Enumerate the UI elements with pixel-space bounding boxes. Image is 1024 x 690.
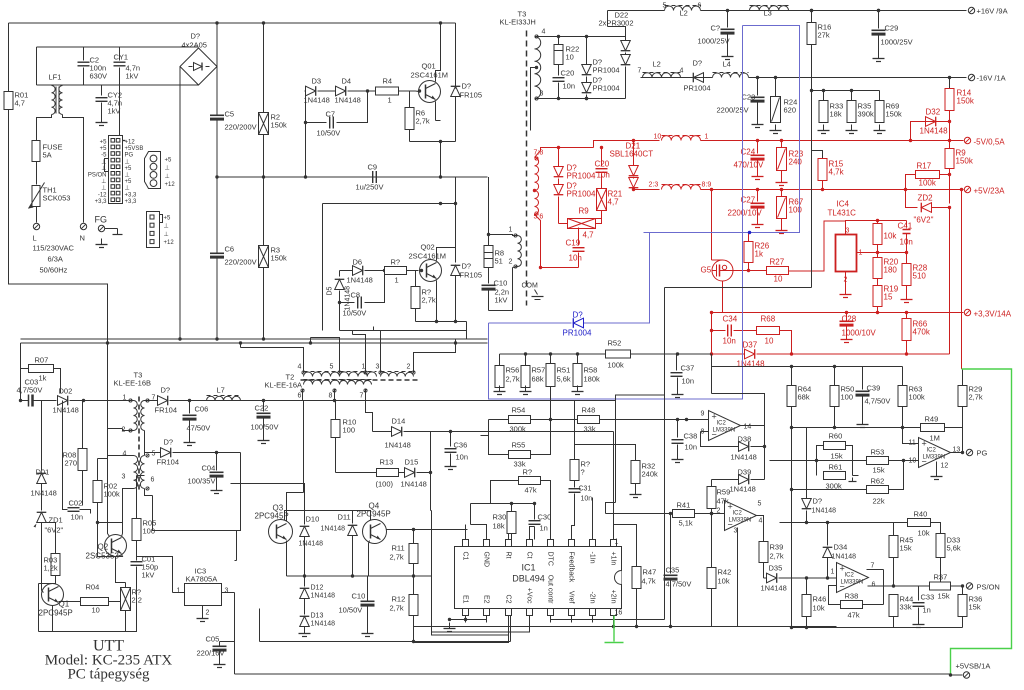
svg-text:18k: 18k bbox=[830, 110, 842, 119]
svg-text:10k: 10k bbox=[918, 529, 930, 538]
svg-text:D12: D12 bbox=[311, 585, 324, 592]
diode D34 bbox=[827, 523, 829, 546]
svg-text:4,7/50V: 4,7/50V bbox=[865, 397, 891, 406]
resistor R24 bbox=[775, 78, 777, 97]
wire red top rail to L2 bbox=[594, 141, 660, 148]
wire pson bottom bus bbox=[792, 627, 963, 629]
svg-text:2,7k: 2,7k bbox=[770, 552, 784, 561]
svg-text:R51: R51 bbox=[557, 366, 571, 375]
svg-text:Q02: Q02 bbox=[421, 243, 435, 252]
resistor R4 bbox=[376, 87, 399, 95]
wire pin10 row bbox=[770, 460, 867, 462]
svg-text:⊥: ⊥ bbox=[125, 172, 130, 179]
svg-text:LM339N: LM339N bbox=[841, 580, 864, 586]
svg-text:⊥: ⊥ bbox=[125, 158, 130, 165]
resistor R55 bbox=[489, 420, 509, 455]
resistor R50 bbox=[834, 367, 836, 386]
svg-text:-12: -12 bbox=[98, 192, 107, 198]
svg-text:10/50V: 10/50V bbox=[339, 606, 363, 615]
diode D? PR1004 a bbox=[582, 65, 592, 75]
svg-text:IC2: IC2 bbox=[927, 448, 937, 454]
svg-text:D?: D? bbox=[161, 386, 171, 395]
capacitor C36 bbox=[450, 432, 452, 447]
resistor R14 bbox=[949, 78, 951, 89]
svg-text:R30: R30 bbox=[493, 513, 507, 522]
wire Q01 collector bbox=[436, 23, 441, 82]
wire T3B sec mid bbox=[144, 431, 146, 456]
svg-text:2: 2 bbox=[407, 364, 411, 371]
resistor R38 bbox=[829, 586, 841, 605]
svg-text:8: 8 bbox=[329, 393, 333, 400]
svg-text:2SC4161M: 2SC4161M bbox=[409, 252, 447, 261]
wire G5 source bbox=[712, 281, 723, 313]
svg-text:C19: C19 bbox=[566, 239, 581, 248]
svg-text:R62: R62 bbox=[871, 477, 885, 486]
svg-text:10: 10 bbox=[774, 275, 783, 284]
resistor R07 bbox=[21, 368, 29, 370]
diode D? FR105 top bbox=[455, 84, 457, 89]
resistor R54 bbox=[489, 419, 509, 421]
resistor R35 bbox=[851, 91, 853, 101]
wire base line bbox=[293, 510, 367, 512]
svg-text:240k: 240k bbox=[642, 470, 659, 479]
svg-text:D01: D01 bbox=[36, 468, 50, 477]
svg-text:47/50V: 47/50V bbox=[187, 424, 211, 433]
svg-text:620: 620 bbox=[784, 106, 797, 115]
junction blue bbox=[748, 231, 751, 234]
wire primary tap bbox=[535, 66, 538, 69]
svg-text:C34: C34 bbox=[723, 315, 738, 324]
resistor R41 bbox=[673, 510, 695, 518]
svg-text:+12: +12 bbox=[164, 240, 175, 246]
wire red sec top bbox=[535, 148, 594, 158]
svg-text:R?: R? bbox=[523, 468, 533, 477]
svg-text:12: 12 bbox=[941, 463, 949, 470]
svg-text:SBL1640CT: SBL1640CT bbox=[610, 150, 654, 159]
wire +1in pin bbox=[613, 432, 615, 540]
svg-text:R37: R37 bbox=[934, 573, 948, 582]
capacitor C29 bbox=[877, 9, 880, 12]
diode D4 bbox=[336, 86, 346, 96]
diode D35 bbox=[764, 577, 767, 579]
resistor R57 bbox=[525, 354, 527, 366]
svg-text:C30: C30 bbox=[538, 513, 552, 522]
zener ZD1 bbox=[37, 512, 47, 522]
svg-text:7: 7 bbox=[638, 68, 642, 75]
diode D15 bbox=[405, 468, 415, 478]
svg-text:⊥: ⊥ bbox=[101, 158, 106, 165]
svg-text:-1In: -1In bbox=[589, 552, 596, 564]
wire +2in pin16 bbox=[613, 616, 615, 627]
resistor R42 bbox=[711, 514, 713, 568]
wire +3,3 rail bbox=[711, 312, 964, 314]
svg-text:115/230VAC: 115/230VAC bbox=[33, 244, 75, 253]
svg-text:+5VSB: +5VSB bbox=[125, 146, 144, 152]
svg-text:PR1004: PR1004 bbox=[593, 84, 620, 93]
svg-text:100k: 100k bbox=[104, 490, 121, 499]
svg-text:+5: +5 bbox=[125, 179, 133, 185]
svg-text:R07: R07 bbox=[35, 356, 49, 365]
resistor R61 bbox=[824, 472, 846, 480]
svg-text:5A: 5A bbox=[43, 151, 52, 160]
svg-text:C06: C06 bbox=[195, 405, 209, 414]
svg-text:LF1: LF1 bbox=[49, 73, 62, 82]
svg-text:IC2: IC2 bbox=[845, 573, 855, 579]
svg-text:L2: L2 bbox=[680, 9, 688, 18]
capacitor C20 snubber bbox=[553, 77, 565, 79]
wire Q4 base feed bbox=[231, 484, 305, 511]
wire box around Q02 bbox=[323, 177, 456, 204]
svg-text:470/10V: 470/10V bbox=[734, 161, 764, 170]
svg-text:R55: R55 bbox=[512, 441, 526, 450]
wire T2 pin3 up bbox=[374, 331, 381, 373]
svg-text:33k: 33k bbox=[514, 460, 526, 469]
svg-text:+Vcc: +Vcc bbox=[526, 588, 533, 604]
wire ic2pg in11 bbox=[903, 428, 919, 444]
svg-text:4,7: 4,7 bbox=[15, 99, 25, 108]
svg-text:10n: 10n bbox=[569, 254, 582, 263]
svg-text:10n: 10n bbox=[71, 513, 84, 522]
wire standby top bus bbox=[21, 342, 488, 344]
svg-text:180: 180 bbox=[884, 266, 898, 275]
connector molex 4pin bbox=[145, 152, 161, 189]
wire +5 sense bbox=[960, 188, 963, 191]
svg-text:R39: R39 bbox=[770, 543, 784, 552]
svg-text:100k: 100k bbox=[909, 393, 926, 402]
resistor R10 bbox=[331, 420, 340, 438]
capacitor C6 bbox=[216, 177, 218, 253]
resistor R23 bbox=[780, 139, 783, 142]
svg-text:Ct: Ct bbox=[526, 552, 533, 559]
mosfet G5 bbox=[712, 260, 733, 281]
diode D6 bbox=[353, 266, 363, 276]
svg-text:R12: R12 bbox=[392, 595, 406, 604]
svg-text:KL-EE-16B: KL-EE-16B bbox=[114, 379, 152, 388]
capacitor C37 bbox=[676, 354, 678, 371]
wire R33 bus bbox=[812, 90, 880, 92]
resistor R11 bbox=[413, 530, 415, 544]
svg-text:Feedback: Feedback bbox=[568, 552, 575, 583]
svg-text:-2In: -2In bbox=[589, 591, 596, 603]
svg-text:1: 1 bbox=[615, 539, 619, 546]
svg-text:Rt: Rt bbox=[505, 552, 512, 559]
svg-text:⊥: ⊥ bbox=[125, 185, 130, 192]
svg-text:3: 3 bbox=[376, 364, 380, 371]
svg-text:18k: 18k bbox=[493, 522, 505, 531]
wire top +310V rail bbox=[9, 22, 456, 24]
wire R11 tap bbox=[431, 511, 433, 577]
resistor R? 47k dtc bbox=[519, 477, 541, 485]
svg-text:1N4148: 1N4148 bbox=[53, 406, 79, 415]
capacitor C34 bbox=[712, 330, 726, 332]
svg-text:KL-EE-16A: KL-EE-16A bbox=[265, 381, 303, 390]
resistor R3 bbox=[263, 177, 265, 246]
svg-text:IC2: IC2 bbox=[733, 511, 743, 517]
svg-text:7: 7 bbox=[871, 563, 875, 570]
svg-text:1: 1 bbox=[831, 569, 835, 576]
wire D3 anode drop bbox=[305, 91, 307, 123]
resistor R51 bbox=[550, 354, 552, 364]
svg-text:+3,3: +3,3 bbox=[95, 199, 108, 205]
svg-text:PG: PG bbox=[125, 153, 134, 159]
svg-text:C10: C10 bbox=[494, 279, 508, 288]
svg-text:+5VSB/1A: +5VSB/1A bbox=[956, 662, 991, 671]
svg-text:R52: R52 bbox=[608, 339, 622, 348]
resistor R62 bbox=[792, 489, 867, 491]
svg-text:15k: 15k bbox=[873, 466, 885, 475]
svg-text:10n: 10n bbox=[682, 377, 695, 386]
resistor R? fb bbox=[574, 401, 576, 460]
resistor R05 bbox=[136, 476, 138, 519]
svg-text:1N4148: 1N4148 bbox=[737, 360, 766, 369]
svg-text:R9: R9 bbox=[579, 207, 590, 216]
svg-text:1k: 1k bbox=[39, 374, 47, 383]
svg-text:⊥: ⊥ bbox=[165, 165, 170, 172]
svg-text:+5: +5 bbox=[125, 166, 133, 172]
svg-text:2,7k: 2,7k bbox=[969, 393, 983, 402]
svg-text:R46: R46 bbox=[813, 595, 827, 604]
svg-text:Q2: Q2 bbox=[98, 543, 109, 552]
svg-text:150k: 150k bbox=[956, 157, 974, 166]
wire blue loop bbox=[656, 26, 800, 233]
wire Q01 emitter bbox=[435, 102, 437, 121]
svg-text:C5: C5 bbox=[225, 110, 235, 119]
svg-text:R27: R27 bbox=[770, 258, 785, 267]
svg-text:11: 11 bbox=[909, 440, 916, 447]
svg-text:1N4148: 1N4148 bbox=[31, 489, 57, 498]
wire outctl vref bbox=[551, 616, 665, 620]
svg-text:100k: 100k bbox=[608, 361, 625, 370]
wire Q2 collector bbox=[122, 534, 123, 537]
svg-text:E1: E1 bbox=[462, 595, 469, 604]
svg-text:270: 270 bbox=[65, 459, 78, 468]
svg-text:6: 6 bbox=[151, 477, 155, 484]
svg-text:2,7k: 2,7k bbox=[506, 375, 520, 384]
label PSON bbox=[966, 583, 972, 589]
wire pg top bus bbox=[712, 366, 903, 368]
svg-text:10: 10 bbox=[654, 134, 662, 141]
svg-text:⊥: ⊥ bbox=[101, 165, 106, 172]
svg-text:D?: D? bbox=[164, 438, 174, 447]
svg-text:R61: R61 bbox=[829, 463, 843, 472]
svg-text:SCK053: SCK053 bbox=[43, 194, 71, 203]
svg-text:C10: C10 bbox=[352, 592, 366, 601]
svg-text:D34: D34 bbox=[834, 543, 848, 552]
svg-text:1N4148: 1N4148 bbox=[299, 541, 324, 548]
svg-text:1N4148: 1N4148 bbox=[730, 485, 756, 494]
svg-text:+12: +12 bbox=[125, 140, 136, 146]
svg-text:6: 6 bbox=[872, 582, 876, 589]
svg-text:4x2A05: 4x2A05 bbox=[182, 41, 207, 50]
svg-text:C7: C7 bbox=[326, 110, 336, 119]
svg-text:"6V2": "6V2" bbox=[45, 526, 64, 535]
wire IC4 anode gnd bbox=[845, 272, 847, 289]
wire AC net A bbox=[36, 47, 38, 85]
wire snubber top bbox=[548, 36, 626, 38]
wire Q02 bottom bus bbox=[339, 303, 341, 331]
svg-text:C31: C31 bbox=[579, 486, 592, 493]
wire mid rail bbox=[217, 176, 488, 178]
resistor R36 bbox=[962, 586, 964, 595]
svg-text:+5: +5 bbox=[165, 158, 173, 164]
svg-text:10/50V: 10/50V bbox=[343, 309, 367, 318]
svg-text:+1In: +1In bbox=[610, 552, 617, 566]
resistor R? 2,2 bbox=[121, 588, 131, 611]
svg-text:C38: C38 bbox=[684, 432, 698, 441]
svg-text:5,6k: 5,6k bbox=[947, 544, 961, 553]
capacitor C35 bbox=[670, 514, 672, 574]
svg-text:+3,3V/14A: +3,3V/14A bbox=[974, 310, 1012, 319]
svg-text:510: 510 bbox=[913, 272, 927, 281]
svg-text:D3: D3 bbox=[312, 77, 322, 86]
svg-text:D10: D10 bbox=[306, 515, 320, 524]
wire c2 vcc pins bbox=[414, 616, 509, 643]
resistor R44 bbox=[889, 595, 898, 617]
wire Q2 emitter net bbox=[108, 429, 110, 537]
diode D01 bbox=[37, 473, 47, 483]
svg-text:PR1004: PR1004 bbox=[593, 66, 620, 75]
svg-text:+16V /9A: +16V /9A bbox=[977, 7, 1008, 16]
svg-text:C36: C36 bbox=[454, 441, 468, 450]
svg-text:D39: D39 bbox=[738, 468, 752, 477]
svg-text:150k: 150k bbox=[957, 97, 975, 106]
transistor Q01 bbox=[419, 81, 441, 103]
svg-text:2: 2 bbox=[509, 259, 513, 266]
svg-text:10k: 10k bbox=[813, 604, 825, 613]
svg-text:5: 5 bbox=[330, 364, 334, 371]
wire 5vsb riser bbox=[616, 395, 665, 401]
resistor R45 bbox=[893, 523, 895, 536]
wire aux out bbox=[237, 453, 241, 531]
wire T2 pin5 up bbox=[311, 338, 340, 373]
svg-text:D4: D4 bbox=[342, 77, 352, 86]
svg-text:⊥: ⊥ bbox=[101, 178, 106, 185]
svg-text:R4: R4 bbox=[383, 77, 393, 86]
svg-text:2SC4161M: 2SC4161M bbox=[411, 71, 449, 80]
svg-text:3: 3 bbox=[846, 228, 850, 235]
resistor R9 150k bbox=[949, 141, 951, 149]
svg-text:D5: D5 bbox=[327, 286, 334, 295]
svg-text:10n: 10n bbox=[685, 443, 698, 452]
svg-text:D6: D6 bbox=[353, 258, 363, 267]
capacitor C06 bbox=[189, 401, 191, 414]
svg-text:15k: 15k bbox=[938, 592, 950, 601]
svg-text:5: 5 bbox=[758, 501, 762, 508]
terminal FG bbox=[98, 225, 104, 231]
resistor R21 red bbox=[597, 189, 607, 211]
svg-text:D?: D? bbox=[573, 311, 584, 320]
resistor R40 bbox=[908, 519, 931, 527]
svg-text:4,7k: 4,7k bbox=[829, 168, 845, 177]
transistor Q2 bbox=[105, 535, 127, 557]
svg-text:D32: D32 bbox=[926, 108, 941, 117]
transistor Q1 bbox=[42, 584, 64, 606]
wire T2 pin6 down bbox=[302, 389, 304, 401]
svg-text:+5V/23A: +5V/23A bbox=[974, 187, 1006, 196]
diode D5 bbox=[335, 279, 345, 289]
capacitor C05 bbox=[219, 642, 221, 646]
resistor R16 bbox=[810, 9, 813, 12]
svg-text:KL-EI33JH: KL-EI33JH bbox=[500, 18, 536, 27]
wire to IC3 bbox=[236, 531, 238, 561]
svg-text:C8: C8 bbox=[351, 291, 361, 300]
svg-text:150k: 150k bbox=[886, 110, 903, 119]
svg-text:1: 1 bbox=[509, 227, 513, 234]
wire top rail right part bbox=[455, 23, 457, 89]
thermistor TH1 bbox=[32, 186, 40, 207]
svg-text:2,7k: 2,7k bbox=[416, 117, 430, 126]
svg-text:FR104: FR104 bbox=[157, 458, 180, 467]
wire dbl bottom pins bbox=[465, 616, 467, 620]
wire IC3 out bbox=[234, 593, 236, 642]
svg-text:R?: R? bbox=[391, 258, 401, 267]
svg-text:⊥: ⊥ bbox=[101, 185, 106, 192]
svg-text:L: L bbox=[33, 234, 37, 243]
wire upper links bbox=[240, 343, 242, 348]
svg-text:PR1004: PR1004 bbox=[684, 84, 711, 93]
diode D10 bbox=[300, 526, 310, 536]
svg-text:C35: C35 bbox=[666, 566, 680, 575]
wire mid rail to T3 bbox=[488, 177, 490, 235]
svg-text:KA7805A: KA7805A bbox=[186, 575, 218, 584]
resistor R? emitter Q02 bbox=[415, 271, 417, 287]
svg-text:⊥: ⊥ bbox=[165, 173, 170, 180]
svg-text:4,7/50V: 4,7/50V bbox=[17, 386, 43, 395]
wire blue vert mid bbox=[584, 233, 650, 324]
capacitor C20 red bbox=[601, 148, 603, 167]
svg-text:C20: C20 bbox=[595, 160, 610, 169]
svg-text:100: 100 bbox=[143, 527, 156, 536]
wire Q4 collector bbox=[387, 529, 468, 531]
capacitor C41 bbox=[906, 221, 908, 227]
wire q1 bottom bbox=[53, 606, 126, 632]
wire T3B pin2 bbox=[108, 428, 123, 430]
resistor R69 bbox=[879, 91, 881, 101]
wire Q02 collector bbox=[437, 248, 456, 261]
svg-text:4: 4 bbox=[298, 364, 302, 371]
svg-text:1N4148: 1N4148 bbox=[304, 96, 330, 105]
winding T2 top bbox=[304, 372, 340, 377]
wire pin1 row bbox=[805, 576, 808, 579]
svg-text:2200/25V: 2200/25V bbox=[717, 106, 749, 115]
svg-text:10n: 10n bbox=[723, 337, 736, 346]
resistor R2 bbox=[263, 23, 265, 113]
resistor R19 bbox=[873, 286, 882, 307]
svg-text:2,7k: 2,7k bbox=[390, 604, 404, 613]
svg-text:DTC: DTC bbox=[547, 552, 554, 566]
svg-text:C?: C? bbox=[711, 24, 721, 33]
wire D22 column bbox=[586, 37, 588, 61]
svg-text:1N4148: 1N4148 bbox=[385, 441, 411, 450]
wire T2 pin1 up bbox=[353, 335, 366, 373]
svg-text:6/3A: 6/3A bbox=[48, 255, 63, 264]
svg-text:390k: 390k bbox=[858, 110, 875, 119]
svg-text:IC4: IC4 bbox=[837, 200, 850, 209]
svg-text:1kV: 1kV bbox=[108, 107, 121, 116]
diode D? PR1004 red a bbox=[558, 148, 560, 167]
capacitor C39 bbox=[862, 367, 864, 390]
diode D? FR104 bot bbox=[145, 489, 153, 496]
svg-text:D15: D15 bbox=[405, 458, 419, 467]
svg-text:68k: 68k bbox=[532, 375, 544, 384]
svg-text:300k: 300k bbox=[510, 425, 527, 434]
svg-text:2: 2 bbox=[206, 610, 210, 617]
wire mid secondary rail bbox=[641, 77, 713, 79]
svg-text:PS/ON: PS/ON bbox=[977, 583, 1000, 592]
svg-text:CY1: CY1 bbox=[114, 53, 129, 62]
svg-text:1N4148: 1N4148 bbox=[311, 621, 336, 628]
wire long gnd bus bbox=[235, 673, 951, 675]
